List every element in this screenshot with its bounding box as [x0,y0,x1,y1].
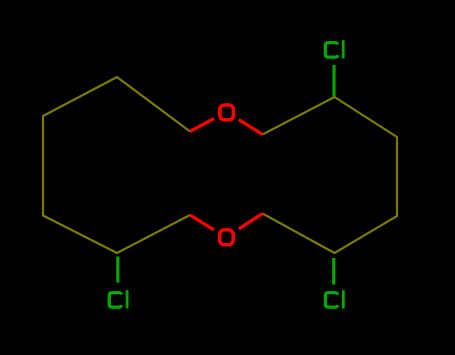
atom label Cl (bottom right): C + l [325,290,343,308]
bond C-Cl (bottom right, green) [332,258,335,285]
bond C-Cl (top right, green) [332,65,335,97]
atom label Cl (top right): C + l [325,40,343,58]
atom label O1 (top oxygen) [220,105,234,120]
bond O1-C (top left, red) [190,118,214,131]
right benzene ring C-C bonds [263,97,398,253]
bond C-Cl (bottom left, green) [116,257,119,283]
bond O2-C (bottom right, red) [239,214,263,229]
bond O1-C (top right, red) [239,120,263,135]
atom label O2 (bottom oxygen) [220,230,234,245]
atom label Cl (bottom left): C + l [109,290,127,308]
left benzene ring C-C bonds [43,77,190,253]
bond O2-C (bottom left, red) [190,215,214,230]
